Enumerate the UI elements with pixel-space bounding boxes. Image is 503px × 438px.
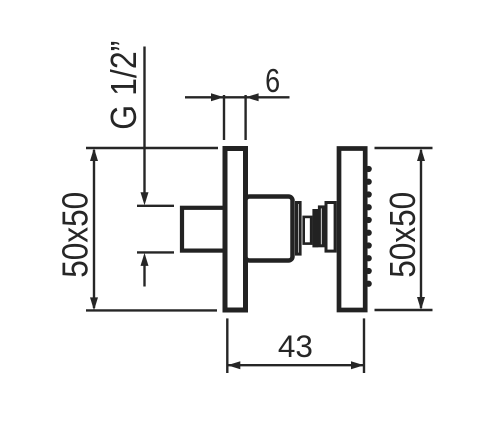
svg-text:50x50: 50x50 bbox=[382, 192, 423, 278]
nozzles bbox=[366, 166, 372, 287]
G 1/2 leader bbox=[137, 47, 174, 287]
svg-text:50x50: 50x50 bbox=[54, 192, 95, 278]
neck bbox=[304, 217, 311, 244]
inlet pipe bbox=[182, 208, 225, 251]
svg-text:G 1/2”: G 1/2” bbox=[103, 41, 144, 130]
svg-text:43: 43 bbox=[278, 328, 313, 364]
wall plate (left 50x50) bbox=[225, 149, 246, 311]
step ring bbox=[314, 211, 317, 246]
dimension 6 arrows bbox=[211, 93, 259, 101]
back disc bbox=[326, 203, 335, 252]
dimension 6 line bbox=[185, 95, 290, 140]
bottom 43 dimension bbox=[227, 318, 364, 373]
bottom 43 arrows bbox=[227, 361, 364, 369]
G 1/2 arrows bbox=[141, 192, 149, 266]
valve body bbox=[246, 197, 293, 261]
spray plate (right 50x50) bbox=[339, 149, 365, 311]
left 50x50 arrows bbox=[90, 148, 98, 310]
collar bbox=[319, 207, 323, 246]
right 50x50 arrows bbox=[417, 148, 425, 310]
svg-text:6: 6 bbox=[265, 62, 280, 99]
left 50x50 dimension bbox=[86, 148, 218, 310]
flange plate bbox=[297, 203, 301, 255]
right 50x50 dimension bbox=[375, 148, 433, 310]
